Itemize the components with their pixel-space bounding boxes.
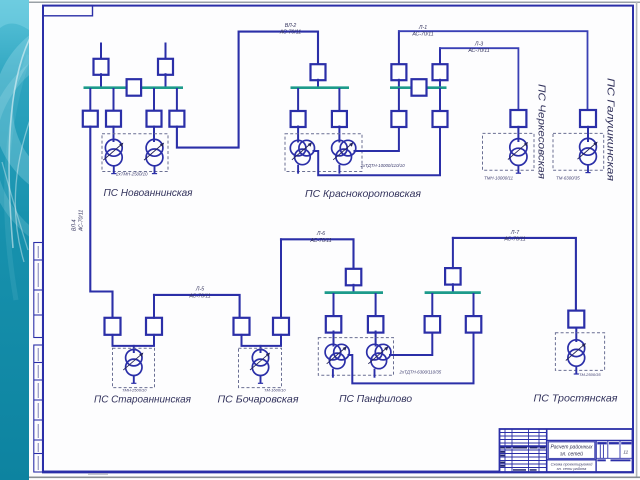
svg-text:ВЛ-4: ВЛ-4 <box>72 219 78 231</box>
svg-text:ПС Тростянская: ПС Тростянская <box>534 393 618 405</box>
breaker QF1 ПС Новоаннинская input 1 <box>94 59 109 75</box>
frame bottom thick edge <box>42 471 634 474</box>
dashed enclosure ПС Краснокоротовская transformers <box>285 134 362 172</box>
slide edge right <box>636 2 638 478</box>
svg-text:2хТДТН-10000/110/10: 2хТДТН-10000/110/10 <box>360 163 406 168</box>
wire QF2 to transformer <box>261 335 282 346</box>
breaker QF5 T2 low-side breaker <box>425 316 441 333</box>
dashed enclosure ПС Тростянская transformer <box>555 333 604 371</box>
breaker QF4 ПС Панфилово input II <box>445 268 461 285</box>
left margin table upper <box>34 243 43 338</box>
svg-text:ВЛ-2: ВЛ-2 <box>285 23 297 29</box>
svg-text:Л-1: Л-1 <box>418 25 427 31</box>
wire QF1 to transformer <box>113 335 134 352</box>
footer microtext smudge <box>88 473 108 475</box>
wire QF4 riser <box>452 238 454 268</box>
title block middle/right verticals <box>546 429 548 472</box>
dashed enclosure ПС Панфилово transformers <box>318 338 393 376</box>
breaker QF3 feeder ВЛ-4 <box>83 111 98 127</box>
breaker QF2 transformer T1 feeder <box>326 316 342 333</box>
wire T1 low side to QF5 <box>314 127 441 176</box>
breaker QF5 T1 low-side breaker <box>433 111 448 127</box>
wire QF3 to T2 <box>375 332 377 346</box>
transformer T2 ПС Панфилово (three-winding, on-load tap changer) <box>367 344 391 377</box>
wire T2 low side to QF4 <box>355 127 399 151</box>
wire incoming supply stub 2 (ПС Новоаннинская) <box>165 44 167 60</box>
busbar section II ПС Панфилово <box>425 291 481 294</box>
svg-text:Расчет районных: Расчет районных <box>550 444 593 451</box>
svg-text:ТМН-2500/10: ТМН-2500/10 <box>122 388 147 393</box>
breaker QF2 line Л-5 breaker <box>146 318 162 335</box>
svg-text:11: 11 <box>623 450 628 455</box>
document title cell box <box>548 442 595 459</box>
breaker QF1 ПС Черкесовская <box>510 110 526 127</box>
breaker QF4 T2 low-side breaker <box>391 111 406 127</box>
wire QF2 to transformer <box>134 335 154 346</box>
svg-text:ТМН-10000/11: ТМН-10000/11 <box>484 176 514 181</box>
transformer T2 ПС Новоаннинская (two-winding, on-load tap changer) <box>144 139 164 173</box>
left grid header smudges (Изм Лист № докум Подп Дата) <box>500 447 545 471</box>
wire line ВЛ-4 (Новоаннинская-Староаннинская) <box>90 127 112 319</box>
transformer T1 ПС Черкесовская (two-winding, on-load tap changer) <box>508 139 528 174</box>
wire line Л-3 (Краснокоротовская-Черкесовская) <box>440 48 518 110</box>
breaker QF1 ПС Бочаровская input <box>234 318 250 335</box>
wire QF1 to transformer <box>242 335 261 352</box>
breaker QB1 bus coupler ПС Новоаннинская <box>127 79 142 96</box>
dashed enclosure ПС Бочаровская transformer <box>239 348 282 387</box>
transformer T1 ПС Тростянская (two-winding, on-load tap changer) <box>566 340 586 374</box>
wire QF4 to T1 <box>113 127 115 142</box>
breaker QF2 transformer T1 feeder <box>291 111 306 127</box>
svg-text:ПС Староаннинская: ПС Староаннинская <box>94 394 191 406</box>
wire line Л-7 (Панфилово-Тростянская) <box>453 238 576 311</box>
wire busbar to QF3 <box>89 89 91 111</box>
svg-text:АС-70/11: АС-70/11 <box>411 31 433 37</box>
wire busbar II to QF6 <box>473 294 475 316</box>
busbar section I ПС Панфилово <box>325 291 383 294</box>
svg-text:ПС Краснокоротовская: ПС Краснокоротовская <box>305 188 421 200</box>
transformer T1 ПС Панфилово (three-winding, on-load tap changer) <box>325 344 349 377</box>
dashed enclosure ПС Галушкинская transformer <box>553 133 604 170</box>
wire QF1 to transformer <box>575 328 577 341</box>
wire busbar I to QF2 <box>297 89 299 111</box>
breaker QF6 line Л-1 breaker <box>391 64 406 80</box>
breaker QF1 ПС Староаннинская input <box>105 318 121 335</box>
svg-text:АС-70/11: АС-70/11 <box>279 30 301 36</box>
transformer T1 ПС Староаннинская (two-winding, on-load tap changer) <box>123 350 143 384</box>
wire QF1 to transformer <box>587 127 589 141</box>
wire line Л-1 (Краснокоротовская-Галушкинская) <box>399 31 588 110</box>
breaker QF1 ПС Краснокоротовская input <box>311 64 326 80</box>
slide edge top <box>29 1 640 3</box>
svg-text:ТМ-6300/35: ТМ-6300/35 <box>556 176 580 181</box>
title block thick divider <box>500 445 547 447</box>
svg-text:эл. сети района: эл. сети района <box>557 466 588 471</box>
svg-text:АС-70/11: АС-70/11 <box>79 210 85 232</box>
breaker QF6 feeder ВЛ-2 <box>169 111 184 127</box>
dashed enclosure ПС Староаннинская transformer <box>113 348 155 387</box>
svg-text:ПС Галушкинская: ПС Галушкинская <box>605 78 617 181</box>
wire T1 low side to QF6 <box>349 332 474 384</box>
svg-text:ПС Панфилово: ПС Панфилово <box>339 393 412 405</box>
svg-text:АС-70/11: АС-70/11 <box>309 238 331 244</box>
wire line ВЛ-2 (Новоаннинская-Краснокоротовская) <box>177 32 318 148</box>
breaker QF1 ПС Тростянская <box>568 311 584 328</box>
frame corner document box <box>43 6 93 16</box>
svg-text:ПС Черкесовская: ПС Черкесовская <box>536 84 548 179</box>
wire QF1 to busbar I <box>317 80 319 88</box>
breaker QF1 ПС Галушкинская <box>580 110 596 127</box>
svg-text:АС-70/11: АС-70/11 <box>188 293 210 299</box>
title block left grid <box>500 429 547 472</box>
breaker QF5 transformer T2 feeder <box>147 111 162 127</box>
wire T2 low side to QF5 <box>390 332 432 356</box>
wire busbar I to QF2 <box>333 294 335 316</box>
wire busbar II to QF5 <box>439 89 441 111</box>
wire QF1 to transformer <box>517 127 519 141</box>
wire busbar to QF6 <box>176 89 178 111</box>
svg-text:2хТМН-2500/10: 2хТМН-2500/10 <box>115 172 148 177</box>
wire QF1 to busbar <box>100 74 102 87</box>
dashed enclosure ПС Новоаннинская transformers <box>102 134 168 172</box>
svg-text:АС-70/11: АС-70/11 <box>503 236 525 242</box>
svg-text:ПС Новоаннинская: ПС Новоаннинская <box>104 187 193 199</box>
breaker QF3 transformer T2 feeder <box>332 111 347 127</box>
wire line Л-6 (Бочаровская-Панфилово) <box>281 239 354 269</box>
wire QF5 to T2 <box>153 127 155 142</box>
wire QF6 to busbar II <box>398 80 400 88</box>
breaker QF3 transformer T2 feeder <box>368 316 384 333</box>
transformer T1 ПС Галушкинская (two-winding, on-load tap changer) <box>578 138 598 172</box>
wire busbar II to QF5 <box>431 294 433 316</box>
wire QF1 to busbar I <box>353 285 355 293</box>
transformer T1 ПС Новоаннинская (two-winding, on-load tap changer) <box>103 139 123 173</box>
Лит cell dividers <box>596 441 632 459</box>
busbar 110 кВ ПС Новоаннинская <box>84 86 184 89</box>
wire QF3 to T2 <box>338 127 340 142</box>
wire incoming supply stub 1 (ПС Новоаннинская) <box>100 44 102 60</box>
wire QF7 to busbar II <box>439 80 441 88</box>
wire QF2 to T1 <box>297 127 299 142</box>
slide edge bottom <box>29 476 640 478</box>
breaker QF4 transformer T1 feeder <box>106 111 121 127</box>
line label ВЛ-4 АС-70/11 (rotated) <box>72 210 85 232</box>
svg-text:Л-7: Л-7 <box>510 230 520 236</box>
breaker QF7 line Л-3 breaker <box>433 64 448 80</box>
Лит/Масса/Масштаб header bars <box>597 442 631 444</box>
wire line Л-5 (Староаннинская-Бочаровская) <box>154 295 240 318</box>
wire QF2 to T1 <box>333 332 335 346</box>
svg-text:ТМ-2500/35: ТМ-2500/35 <box>579 372 601 377</box>
svg-text:Л-5: Л-5 <box>195 287 204 293</box>
wire QF2 riser <box>153 295 155 318</box>
svg-text:2хТДТН-6300/110/35: 2хТДТН-6300/110/35 <box>399 370 442 375</box>
svg-text:эл. сетей: эл. сетей <box>560 451 583 458</box>
svg-text:Л-3: Л-3 <box>474 41 483 47</box>
breaker QF1 ПС Панфилово input I <box>346 269 362 286</box>
dashed enclosure ПС Черкесовская transformer <box>483 133 535 170</box>
breaker QF6 T1 low-side breaker <box>466 316 482 333</box>
Лист/Листов bars <box>597 459 630 461</box>
wire QF7 riser to Л-3 <box>439 48 441 64</box>
breaker QF2 ПС Новоаннинская input 2 <box>158 59 173 75</box>
svg-text:АС-70/11: АС-70/11 <box>467 48 489 54</box>
wire busbar I to QF3 <box>375 294 377 316</box>
transformer T1 ПС Бочаровская (two-winding, on-load tap changer) <box>250 350 270 384</box>
margin table text smudges <box>37 246 39 470</box>
wire busbar to QF4 <box>113 89 115 111</box>
wire busbar II to QF4 <box>398 89 400 111</box>
left margin table lower <box>34 345 43 472</box>
busbar section I ПС Краснокоротовская <box>291 86 350 89</box>
busbar section II ПС Краснокоротовская <box>390 86 447 89</box>
breaker QB2 bus coupler ПС Краснокоротовская <box>412 79 427 96</box>
transformer T1 ПС Краснокоротовская (three-winding, on-load tap changer) <box>290 140 314 173</box>
title block outer frame <box>500 429 633 472</box>
svg-text:ПС Бочаровская: ПС Бочаровская <box>218 394 299 406</box>
breaker QF2 line Л-6 breaker <box>273 318 289 335</box>
wire busbar I to QF3 <box>338 89 340 111</box>
wire QF4 to busbar II <box>452 284 454 292</box>
wire busbar to QF5 <box>153 89 155 111</box>
wire QF6 riser to Л-1 <box>398 31 400 64</box>
transformer T2 ПС Краснокоротовская (three-winding, on-load tap changer) <box>332 140 356 173</box>
wire QF2 riser <box>280 239 282 317</box>
wire QF2 to busbar <box>165 74 167 87</box>
svg-text:ТМ-1600/10: ТМ-1600/10 <box>264 388 286 393</box>
svg-text:Л-6: Л-6 <box>316 231 325 237</box>
